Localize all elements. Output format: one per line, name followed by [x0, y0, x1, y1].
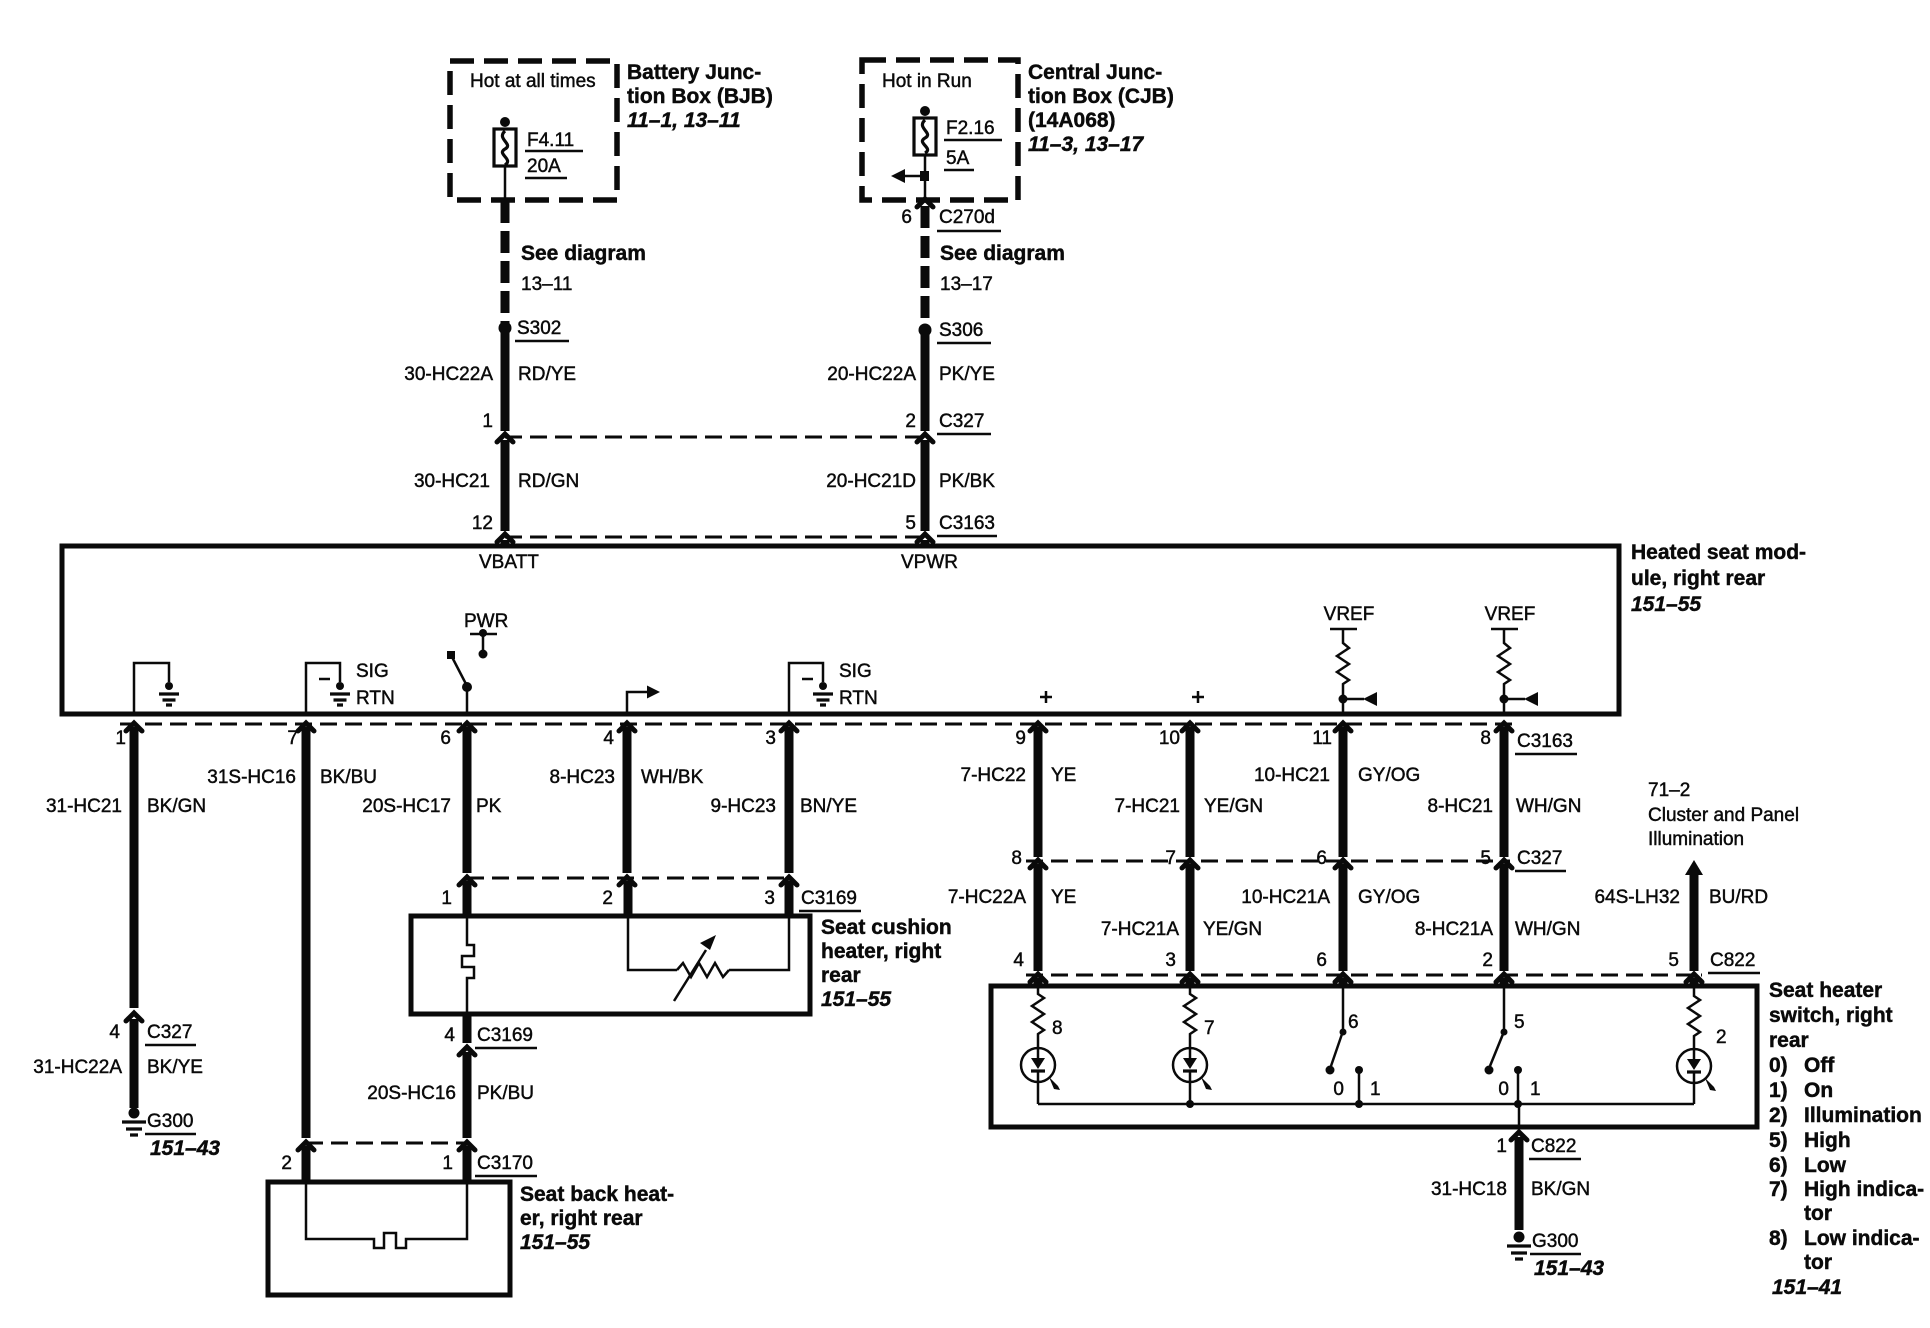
- module internal SIG RTN ground (pin 3): [789, 663, 823, 712]
- svg-text:20A: 20A: [527, 156, 561, 177]
- svg-text:8: 8: [1052, 1018, 1063, 1039]
- thermistor loop between pins 2 and 3: [628, 916, 677, 970]
- ground G300 (left): [129, 1108, 140, 1119]
- wire 20-HC22A feed (dashed thick): [921, 206, 930, 326]
- svg-text:C3169: C3169: [801, 888, 857, 909]
- svg-text:2): 2): [1769, 1104, 1788, 1127]
- svg-text:9-HC23: 9-HC23: [711, 796, 776, 817]
- svg-text:31-HC22A: 31-HC22A: [33, 1057, 122, 1078]
- svg-text:10-HC21: 10-HC21: [1254, 765, 1330, 786]
- connector row C822 (dashed): [1026, 974, 1702, 977]
- svg-text:31S-HC16: 31S-HC16: [207, 767, 296, 788]
- svg-text:10-HC21A: 10-HC21A: [1241, 887, 1330, 908]
- svg-text:Illumination: Illumination: [1648, 829, 1744, 850]
- svg-text:er, right rear: er, right rear: [520, 1207, 643, 1230]
- svg-text:BU/RD: BU/RD: [1709, 887, 1768, 908]
- module internal plus mark (pin 9): [1040, 691, 1052, 703]
- svg-text:6: 6: [1348, 1012, 1359, 1033]
- svg-text:C3170: C3170: [477, 1153, 533, 1174]
- svg-text:Low: Low: [1804, 1154, 1847, 1177]
- svg-text:Battery Junc-: Battery Junc-: [627, 61, 761, 84]
- svg-text:Hot at all times: Hot at all times: [470, 71, 596, 92]
- svg-text:C3163: C3163: [1517, 731, 1573, 752]
- module internal plus mark (pin 10): [1192, 691, 1204, 703]
- ground G300 (right): [1514, 1232, 1525, 1243]
- svg-text:7-HC22: 7-HC22: [961, 765, 1026, 786]
- splice S302: [499, 322, 512, 335]
- svg-text:31-HC18: 31-HC18: [1431, 1179, 1507, 1200]
- connector chevron at C327 pin 2: [917, 434, 933, 442]
- module internal output arrow (pin 4): [627, 692, 648, 712]
- svg-text:PK/YE: PK/YE: [939, 364, 995, 385]
- svg-text:151–55: 151–55: [1631, 593, 1701, 616]
- svg-text:PK: PK: [476, 796, 502, 817]
- connector row C3163 power side (dashed): [505, 536, 925, 539]
- connector row C3163 (module harness, dashed): [120, 723, 1512, 726]
- svg-text:3: 3: [764, 888, 775, 909]
- svg-text:tion Box (CJB): tion Box (CJB): [1028, 85, 1174, 108]
- connector row C3170 (dashed): [306, 1142, 467, 1145]
- svg-text:5): 5): [1769, 1129, 1788, 1152]
- svg-text:C822: C822: [1531, 1136, 1576, 1157]
- svg-text:20-HC21D: 20-HC21D: [826, 471, 916, 492]
- svg-text:20S-HC17: 20S-HC17: [362, 796, 451, 817]
- wire 31-HC18 BK/GN: [1515, 1137, 1524, 1230]
- wire 7-HC21A YE/GN: [1186, 864, 1195, 971]
- low indicator resistor + LED (pin 4 / 8): [1032, 986, 1044, 1048]
- connector symbol (chevron) at pin 1: [497, 434, 513, 442]
- svg-text:Hot in Run: Hot in Run: [882, 71, 972, 92]
- wire 8-HC23 WH/BK (pin 4): [623, 727, 632, 873]
- svg-text:8-HC21A: 8-HC21A: [1415, 919, 1493, 940]
- svg-text:Heated seat mod-: Heated seat mod-: [1631, 541, 1806, 564]
- wire 31-HC22A BK/YE: [130, 1019, 139, 1108]
- svg-text:WH/GN: WH/GN: [1516, 796, 1581, 817]
- wire 7-HC22 YE (pin 9): [1034, 727, 1043, 857]
- fuse F2.16 body: [914, 118, 936, 155]
- connector chevron at C3163 pin 5: [917, 534, 933, 542]
- svg-text:1: 1: [442, 1153, 453, 1174]
- svg-text:6: 6: [1316, 848, 1327, 869]
- svg-text:Central Junc-: Central Junc-: [1028, 61, 1162, 84]
- svg-text:tion Box (BJB): tion Box (BJB): [627, 85, 773, 108]
- svg-text:On: On: [1804, 1079, 1833, 1102]
- svg-text:G300: G300: [1532, 1231, 1578, 1252]
- wire 30-HC22A feed (dashed thick): [501, 201, 510, 324]
- svg-text:Seat back heat-: Seat back heat-: [520, 1183, 674, 1206]
- svg-text:9: 9: [1015, 728, 1026, 749]
- wire stub into module VPWR: [921, 540, 930, 546]
- svg-text:13–17: 13–17: [940, 274, 993, 295]
- svg-text:C3169: C3169: [477, 1025, 533, 1046]
- svg-text:C327: C327: [939, 411, 984, 432]
- svg-text:C327: C327: [1517, 848, 1562, 869]
- svg-text:VPWR: VPWR: [901, 552, 958, 573]
- Seat heater switch box: [991, 986, 1757, 1127]
- svg-text:0): 0): [1769, 1054, 1788, 1077]
- svg-text:2: 2: [1716, 1027, 1727, 1048]
- svg-text:3: 3: [765, 728, 776, 749]
- connector chevrons at module pins: [126, 723, 142, 731]
- wire 20-HC22A solid: [921, 333, 930, 431]
- wire 31S-HC16 BK/BU (pin 7): [302, 727, 311, 1138]
- svg-text:8-HC23: 8-HC23: [550, 767, 615, 788]
- svg-text:Low indica-: Low indica-: [1804, 1227, 1920, 1250]
- svg-text:8): 8): [1769, 1227, 1788, 1250]
- svg-text:VBATT: VBATT: [479, 552, 539, 573]
- wire 20-HC21D: [921, 440, 930, 531]
- svg-text:7): 7): [1769, 1178, 1788, 1201]
- branch arrow to other circuits inside CJB: [903, 175, 925, 178]
- high indicator resistor + LED (pin 3 / 7): [1184, 986, 1196, 1048]
- svg-text:YE/GN: YE/GN: [1204, 796, 1263, 817]
- wire 30-HC21: [501, 440, 510, 531]
- svg-text:BK/YE: BK/YE: [147, 1057, 203, 1078]
- svg-text:11–1, 13–11: 11–1, 13–11: [627, 109, 741, 132]
- module internal SIG RTN ground (pin 7): [306, 663, 340, 712]
- svg-text:5: 5: [1480, 848, 1491, 869]
- Heated seat module box: [62, 546, 1619, 714]
- heater element (castellated) inside cushion heater: [462, 916, 474, 1014]
- svg-text:12: 12: [472, 513, 493, 534]
- svg-text:C327: C327: [147, 1022, 192, 1043]
- connector chevron at pin 12: [497, 534, 513, 542]
- svg-text:S306: S306: [939, 320, 983, 341]
- svg-text:5: 5: [1514, 1012, 1525, 1033]
- svg-text:Cluster and Panel: Cluster and Panel: [1648, 805, 1799, 826]
- wire stubs into seat cushion heater: [463, 881, 472, 916]
- svg-text:1: 1: [115, 728, 126, 749]
- svg-text:151–55: 151–55: [821, 988, 891, 1011]
- connector chevron at C270d pin 6: [917, 199, 933, 207]
- fuse F2.16 element squiggle: [922, 120, 927, 153]
- svg-text:Illumination: Illumination: [1804, 1104, 1922, 1127]
- svg-text:heater, right: heater, right: [821, 940, 941, 963]
- svg-text:VREF: VREF: [1485, 604, 1536, 625]
- svg-text:1: 1: [1370, 1079, 1381, 1100]
- svg-text:2: 2: [602, 888, 613, 909]
- switch High (pin 2 / 5): [1503, 986, 1506, 1030]
- svg-text:High indica-: High indica-: [1804, 1178, 1924, 1201]
- svg-text:YE/GN: YE/GN: [1203, 919, 1262, 940]
- svg-text:PK/BU: PK/BU: [477, 1083, 534, 1104]
- svg-text:BK/GN: BK/GN: [147, 796, 206, 817]
- svg-text:BN/YE: BN/YE: [800, 796, 857, 817]
- wire 20S-HC16 PK/BU below cushion heater: [463, 1014, 472, 1043]
- svg-text:rear: rear: [821, 964, 861, 987]
- svg-text:4: 4: [109, 1022, 120, 1043]
- svg-text:BK/GN: BK/GN: [1531, 1179, 1590, 1200]
- heater element inside seat back heater: [306, 1182, 467, 1248]
- svg-text:31-HC21: 31-HC21: [46, 796, 122, 817]
- svg-text:RD/GN: RD/GN: [518, 471, 579, 492]
- svg-text:WH/GN: WH/GN: [1515, 919, 1580, 940]
- svg-text:1: 1: [441, 888, 452, 909]
- svg-text:151–55: 151–55: [520, 1231, 590, 1254]
- svg-text:151–41: 151–41: [1772, 1276, 1842, 1299]
- wire 10-HC21A GY/OG: [1339, 864, 1348, 971]
- svg-text:PWR: PWR: [464, 611, 508, 632]
- svg-text:2: 2: [1482, 950, 1493, 971]
- wire 31-HC21 BK/GN (pin 1): [130, 727, 139, 1008]
- svg-text:C3163: C3163: [939, 513, 995, 534]
- svg-text:0: 0: [1498, 1079, 1509, 1100]
- svg-text:Off: Off: [1804, 1054, 1835, 1077]
- svg-text:1: 1: [1496, 1136, 1507, 1157]
- svg-text:30-HC21: 30-HC21: [414, 471, 490, 492]
- svg-text:tor: tor: [1804, 1251, 1832, 1274]
- Battery Junction Box dashed enclosure: [450, 61, 617, 200]
- svg-text:20-HC22A: 20-HC22A: [827, 364, 916, 385]
- svg-text:tor: tor: [1804, 1202, 1832, 1225]
- fuse F4.11 terminal dot: [500, 117, 510, 127]
- fuse F4.11 body: [494, 129, 516, 166]
- svg-text:5: 5: [905, 513, 916, 534]
- svg-text:Seat heater: Seat heater: [1769, 979, 1882, 1002]
- fuse F4.11 element squiggle: [502, 131, 507, 165]
- svg-text:7: 7: [1204, 1018, 1215, 1039]
- svg-text:30-HC22A: 30-HC22A: [404, 364, 493, 385]
- switch Low (pin 6): [1342, 986, 1345, 1030]
- wire 8-HC21A WH/GN: [1500, 864, 1509, 971]
- svg-text:5A: 5A: [946, 148, 970, 169]
- svg-text:7-HC22A: 7-HC22A: [948, 887, 1026, 908]
- splice S306: [919, 324, 932, 337]
- module internal ground (pin 1): [134, 663, 169, 712]
- svg-text:F4.11: F4.11: [527, 130, 574, 151]
- Seat cushion heater box: [411, 916, 810, 1014]
- wire stubs into seat back heater: [302, 1146, 311, 1182]
- wire 7-HC22A YE: [1034, 864, 1043, 971]
- svg-text:GY/OG: GY/OG: [1358, 765, 1420, 786]
- svg-text:8: 8: [1480, 728, 1491, 749]
- svg-text:3: 3: [1165, 950, 1176, 971]
- svg-text:GY/OG: GY/OG: [1358, 887, 1420, 908]
- svg-text:switch, right: switch, right: [1769, 1004, 1893, 1027]
- svg-text:2: 2: [281, 1153, 292, 1174]
- svg-text:BK/BU: BK/BU: [320, 767, 377, 788]
- connector row C3169 (dashed): [467, 877, 789, 880]
- svg-text:Seat cushion: Seat cushion: [821, 916, 952, 939]
- svg-text:8: 8: [1011, 848, 1022, 869]
- svg-text:F2.16: F2.16: [946, 118, 995, 139]
- svg-text:4: 4: [444, 1025, 455, 1046]
- connector C327 pin 4 chevron (pin1 branch): [126, 1013, 142, 1021]
- svg-text:C270d: C270d: [939, 207, 995, 228]
- wire 9-HC23 BN/YE (pin 3): [785, 727, 794, 873]
- switch common bus wire: [1038, 1103, 1694, 1106]
- svg-text:1: 1: [482, 411, 493, 432]
- illumination resistor + LED (pin 5 / 2): [1688, 986, 1700, 1049]
- Central Junction Box dashed enclosure: [862, 60, 1018, 200]
- svg-text:6: 6: [440, 728, 451, 749]
- svg-text:11: 11: [1312, 728, 1332, 749]
- svg-text:See diagram: See diagram: [940, 242, 1065, 265]
- svg-text:rear: rear: [1769, 1029, 1809, 1052]
- svg-text:5: 5: [1668, 950, 1679, 971]
- svg-text:YE: YE: [1051, 765, 1076, 786]
- svg-text:1): 1): [1769, 1079, 1788, 1102]
- wire 8-HC21 WH/GN (pin 8): [1500, 727, 1509, 857]
- svg-text:8-HC21: 8-HC21: [1428, 796, 1493, 817]
- svg-text:0: 0: [1333, 1079, 1344, 1100]
- svg-text:WH/BK: WH/BK: [641, 767, 704, 788]
- wire stub into module VBATT: [501, 540, 510, 546]
- connector row C327 (dashed): [1026, 860, 1510, 863]
- svg-text:6: 6: [901, 207, 912, 228]
- wire: fuse output inside CJB: [924, 155, 927, 200]
- svg-text:6: 6: [1316, 950, 1327, 971]
- wire 64S-LH32 BU/RD from illumination: [1685, 860, 1703, 875]
- svg-text:2: 2: [905, 411, 916, 432]
- switch output to ground: [1518, 1104, 1521, 1127]
- svg-text:7-HC21A: 7-HC21A: [1101, 919, 1179, 940]
- svg-text:71–2: 71–2: [1648, 780, 1690, 801]
- Seat back heater box: [268, 1182, 510, 1295]
- svg-text:RD/YE: RD/YE: [518, 364, 576, 385]
- svg-text:7: 7: [287, 728, 298, 749]
- svg-text:(14A068): (14A068): [1028, 109, 1116, 132]
- svg-text:S302: S302: [517, 318, 561, 339]
- inline connector row (dashed): [505, 436, 925, 439]
- wire: fuse output inside BJB: [504, 166, 507, 200]
- svg-text:RTN: RTN: [839, 688, 878, 709]
- svg-text:6): 6): [1769, 1154, 1788, 1177]
- svg-text:7: 7: [1165, 848, 1176, 869]
- svg-text:151–43: 151–43: [150, 1137, 220, 1160]
- svg-text:1: 1: [1530, 1079, 1541, 1100]
- svg-text:7-HC21: 7-HC21: [1115, 796, 1180, 817]
- svg-text:VREF: VREF: [1324, 604, 1375, 625]
- fuse F2.16 terminal dot: [920, 106, 930, 116]
- svg-text:C822: C822: [1710, 950, 1755, 971]
- svg-text:RTN: RTN: [356, 688, 395, 709]
- svg-text:ule, right rear: ule, right rear: [1631, 567, 1765, 590]
- svg-text:4: 4: [1013, 950, 1024, 971]
- svg-text:11–3, 13–17: 11–3, 13–17: [1028, 133, 1145, 156]
- svg-text:10: 10: [1159, 728, 1180, 749]
- svg-text:SIG: SIG: [839, 661, 872, 682]
- svg-text:4: 4: [603, 728, 614, 749]
- thermistor arrow (variable): [674, 950, 706, 1001]
- svg-text:64S-LH32: 64S-LH32: [1594, 887, 1680, 908]
- svg-text:YE: YE: [1051, 887, 1076, 908]
- svg-text:See diagram: See diagram: [521, 242, 646, 265]
- wire stubs into switch box: [1034, 978, 1043, 986]
- svg-text:PK/BK: PK/BK: [939, 471, 995, 492]
- wire 30-HC22A solid: [501, 331, 510, 431]
- wire 10-HC21 GY/OG (pin 11): [1339, 727, 1348, 857]
- svg-text:G300: G300: [147, 1111, 193, 1132]
- svg-text:High: High: [1804, 1129, 1851, 1152]
- wire 7-HC21 YE/GN (pin 10): [1186, 727, 1195, 857]
- svg-text:SIG: SIG: [356, 661, 389, 682]
- svg-text:151–43: 151–43: [1534, 1257, 1604, 1280]
- wire 20S-HC17 PK (pin 6): [463, 727, 472, 873]
- svg-text:20S-HC16: 20S-HC16: [367, 1083, 456, 1104]
- svg-text:13–11: 13–11: [521, 274, 572, 295]
